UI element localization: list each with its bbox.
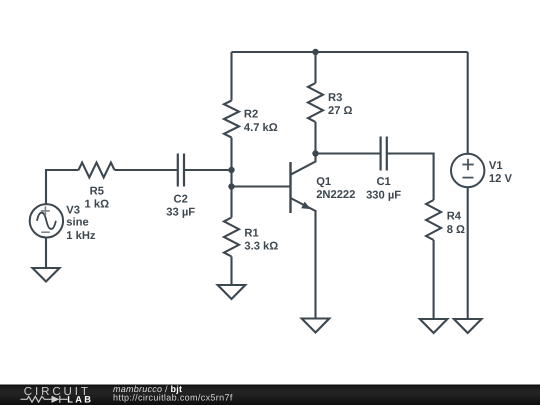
node D (R3 top rail junction) [312, 49, 318, 55]
wire: C1 to corner [388, 154, 434, 201]
svg-text:http://circuitlab.com/cx5rn7f: http://circuitlab.com/cx5rn7f [113, 392, 233, 402]
wire: node B to R1 [230, 187, 232, 218]
node A (C2/R2/R1 junction) [228, 167, 234, 173]
wire: R1 to ground [230, 257, 232, 286]
capacitor C2 [166, 154, 195, 219]
svg-text:C1: C1 [376, 176, 390, 188]
svg-text:2N2222: 2N2222 [316, 189, 355, 201]
svg-text:R3: R3 [328, 92, 342, 104]
svg-text:12 V: 12 V [489, 173, 513, 185]
ground (V1) [454, 319, 482, 333]
svg-text:1 kHz: 1 kHz [66, 230, 96, 242]
ground (V3) [33, 268, 60, 282]
svg-text:330 µF: 330 µF [366, 189, 401, 201]
wire: V1 to ground [467, 187, 469, 319]
wire: V1 branch top [467, 52, 469, 154]
wire: C2 to node A [185, 169, 232, 171]
svg-text:3.3 kΩ: 3.3 kΩ [244, 241, 278, 253]
wire: V3 top to R5 [46, 170, 79, 204]
CircuitLab logo: LAB text [67, 394, 93, 404]
svg-text:Q1: Q1 [316, 176, 331, 188]
capacitor C1 [366, 137, 401, 202]
svg-text:sine: sine [66, 217, 88, 229]
svg-text:33 µF: 33 µF [166, 207, 195, 219]
svg-text:C2: C2 [174, 193, 188, 205]
transistor Q1 [291, 154, 356, 319]
svg-text:R1: R1 [244, 228, 258, 240]
node B (base junction) [228, 183, 234, 189]
svg-text:R2: R2 [244, 109, 258, 121]
ground (Q1 emitter) [302, 319, 330, 333]
resistor R1 [224, 218, 278, 257]
voltage source V3 (sine) [30, 204, 96, 242]
footer bar [0, 385, 540, 405]
wire: node A to node B [230, 170, 232, 187]
wire: top rail [232, 51, 468, 53]
wire: R2 to node A [230, 138, 232, 171]
resistor R3 [308, 83, 353, 122]
wire: R3 branch from rail [314, 52, 316, 83]
wire: R2 branch from rail [230, 52, 232, 101]
resistor R2 [224, 101, 278, 138]
wire: R3 to node C [314, 122, 316, 154]
resistor R4 [426, 200, 465, 240]
wire: node C to C1 [316, 152, 380, 154]
ground (R4) [420, 319, 448, 333]
svg-text:V1: V1 [489, 160, 503, 172]
resistor R5 [79, 163, 115, 211]
svg-text:R5: R5 [90, 185, 104, 197]
svg-text:LAB: LAB [67, 394, 93, 404]
ground (R1) [218, 285, 246, 299]
svg-text:V3: V3 [66, 204, 80, 216]
voltage source V1 [451, 154, 512, 187]
svg-text:4.7 kΩ: 4.7 kΩ [244, 122, 278, 134]
wire: node B to Q1 base [232, 185, 291, 187]
wire: R4 to ground [433, 240, 435, 319]
node C (collector/R3/C1 junction) [312, 150, 318, 156]
svg-text:R4: R4 [447, 210, 462, 222]
svg-text:8 Ω: 8 Ω [447, 224, 465, 236]
CircuitLab logo: resistor zigzag and diode [21, 396, 68, 403]
svg-text:1 kΩ: 1 kΩ [85, 198, 110, 210]
wire: V3 bottom to ground [45, 237, 47, 268]
svg-text:27 Ω: 27 Ω [328, 105, 353, 117]
footer: author / title [113, 384, 182, 394]
CircuitLab logo: CIRCUIT text [24, 385, 91, 398]
wire: R5 to C2 [115, 169, 178, 171]
footer: url [113, 392, 233, 402]
